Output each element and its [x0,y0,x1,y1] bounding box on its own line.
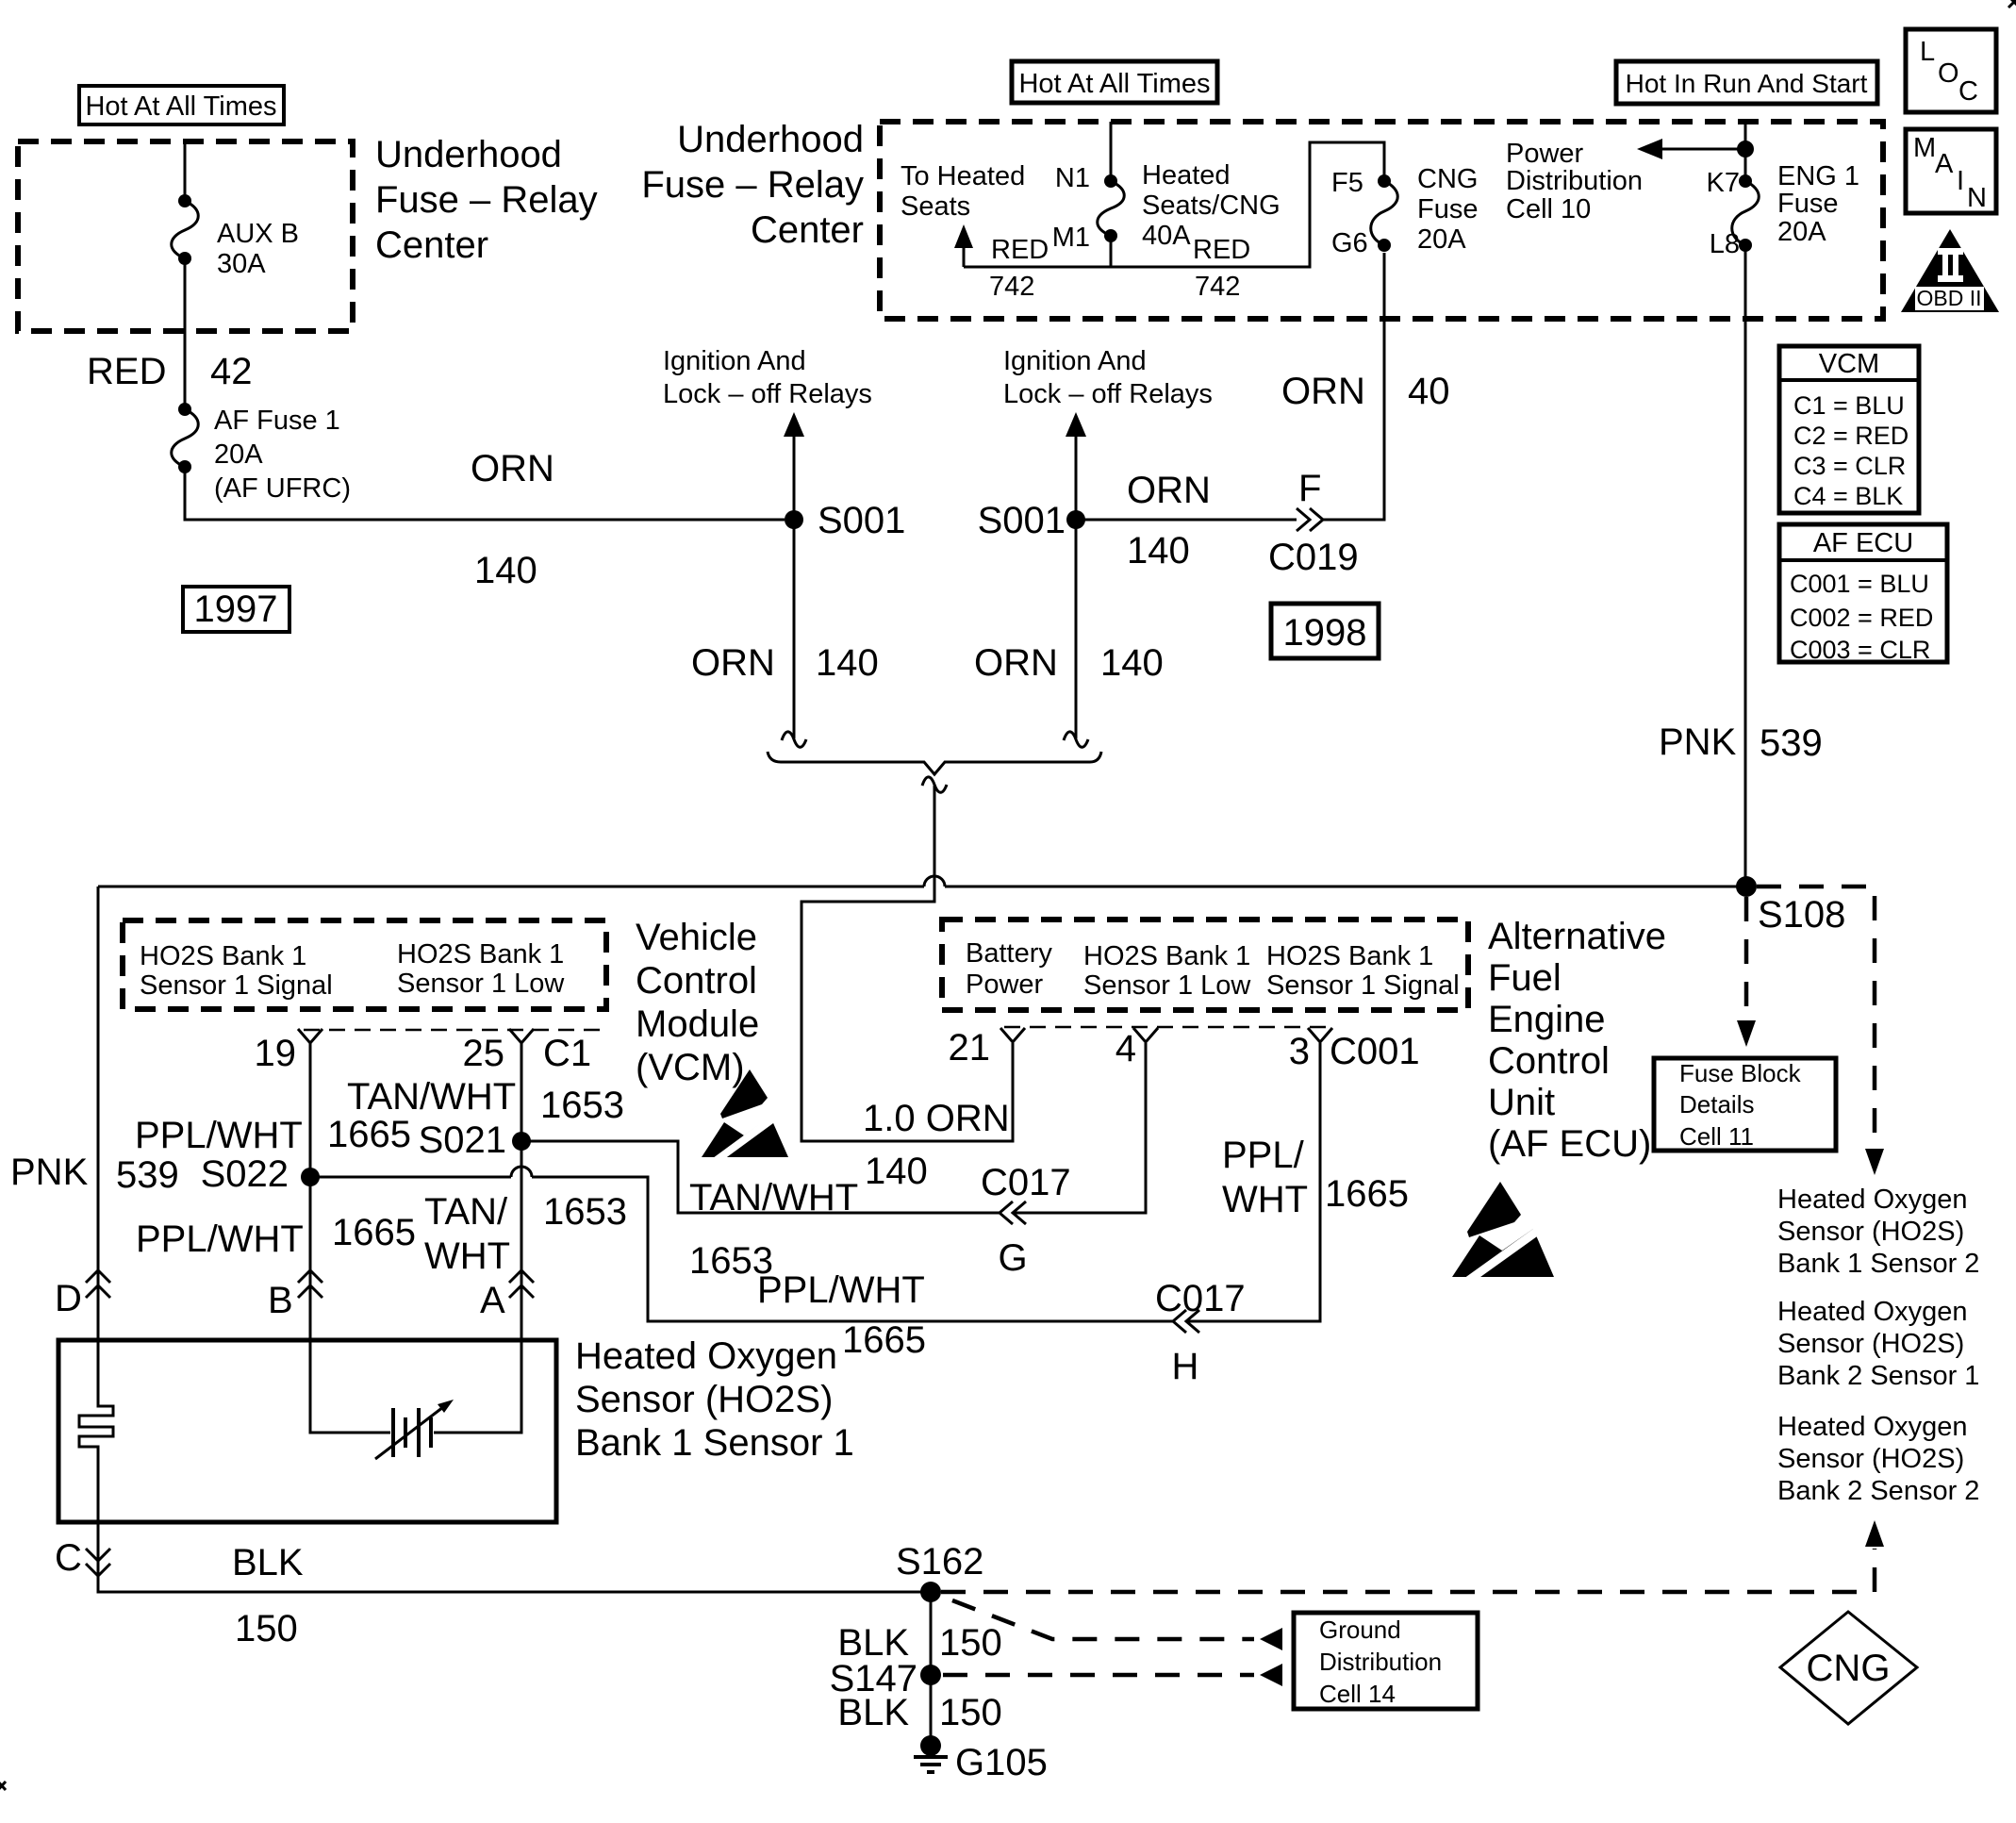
pin 19 fork [298,1029,322,1043]
svg-text:Fuse – Relay: Fuse – Relay [641,164,864,206]
svg-text:Sensor (HO2S): Sensor (HO2S) [1777,1217,1964,1247]
svg-text:Module: Module [636,1003,759,1045]
svg-text:N1: N1 [1055,163,1090,193]
svg-text:H: H [1172,1346,1199,1387]
svg-text:742: 742 [1195,272,1240,302]
pin 25 fork [509,1029,534,1043]
merge brace under the two ORN wires [768,752,1101,774]
svg-text:Bank 2 Sensor 1: Bank 2 Sensor 1 [1777,1361,1979,1391]
svg-text:742: 742 [989,272,1034,302]
svg-text:RED: RED [1193,235,1250,265]
label box "Hot At All Times" (left) [79,86,284,124]
svg-text:C017: C017 [981,1162,1071,1203]
svg-text:PNK: PNK [10,1152,89,1193]
label Ignition And Lock-off Relays (right) [1003,346,1213,409]
arrow up to ignition relays (right) [1066,412,1086,520]
svg-text:PPL/WHT: PPL/WHT [135,1115,303,1156]
VCM connector legend box [1779,346,1919,513]
svg-text:C002 = RED: C002 = RED [1790,604,1933,632]
connector C019 pin F chevrons [1268,468,1359,578]
svg-text:(AF ECU): (AF ECU) [1488,1123,1651,1165]
fuse CNG Fuse 20A (F5/G6) [1331,164,1478,258]
svg-text:Underhood: Underhood [677,119,864,160]
svg-text:K7: K7 [1707,168,1740,198]
svg-text:21: 21 [949,1027,991,1069]
svg-text:Bank 1 Sensor 2: Bank 1 Sensor 2 [1777,1249,1979,1279]
label Power Distribution Cell 10 [1506,139,1643,224]
label Ignition And Lock-off Relays (left) [663,346,872,409]
wire hop over brace branch [924,876,945,887]
sensor cell wires (B and A legs) [310,1340,390,1433]
corner registration mark (bottom left) [0,1781,6,1791]
svg-text:Seats/CNG: Seats/CNG [1142,191,1281,221]
svg-text:Alternative: Alternative [1488,916,1666,957]
svg-text:Control: Control [1488,1040,1610,1082]
svg-text:RED: RED [87,351,166,392]
svg-text:G: G [998,1237,1027,1279]
svg-text:ORN: ORN [691,642,775,684]
wire from box top to fuse AUX B [184,141,187,201]
svg-text:C001: C001 [1330,1031,1420,1072]
wire TAN/WHT 1653 from S021 to C017 G [521,1141,1000,1213]
svg-text:Sensor (HO2S): Sensor (HO2S) [1777,1329,1964,1359]
svg-text:A: A [480,1280,505,1321]
year box 1997 [183,587,289,632]
svg-text:Hot At All Times: Hot At All Times [85,91,276,122]
connector chevrons A (up) [480,1270,534,1321]
svg-text:To Heated: To Heated [901,161,1025,191]
splice S021 [419,1119,531,1161]
svg-text:RED: RED [991,235,1049,265]
svg-text:PPL/: PPL/ [1222,1135,1305,1176]
svg-text:1665: 1665 [1325,1173,1409,1215]
svg-text:Sensor 1 Signal: Sensor 1 Signal [140,970,333,1001]
wire-break squiggle (right) [1064,732,1088,747]
splice S108 [1736,876,1845,936]
svg-text:Hot At All Times: Hot At All Times [1018,69,1210,99]
svg-text:HO2S Bank 1: HO2S Bank 1 [1083,941,1250,971]
wire ORN 40 from C019 up to G6 [1323,253,1384,520]
svg-text:4: 4 [1115,1028,1136,1069]
svg-text:Sensor (HO2S): Sensor (HO2S) [575,1379,833,1420]
svg-text:Heated Oxygen: Heated Oxygen [1777,1412,1968,1442]
svg-text:C1 = BLU: C1 = BLU [1793,391,1905,420]
svg-text:HO2S Bank 1: HO2S Bank 1 [140,941,306,971]
svg-text:N: N [1967,183,1987,213]
svg-text:140: 140 [865,1151,928,1192]
svg-text:S108: S108 [1758,894,1845,936]
wire PNK 539 horizontal with hop [98,886,924,888]
svg-text:3: 3 [1289,1031,1310,1072]
svg-text:1997: 1997 [194,588,278,630]
svg-text:Details: Details [1679,1090,1754,1119]
heater element (on D-C wire) [79,1340,113,1522]
svg-text:Unit: Unit [1488,1082,1555,1123]
variable arrow across cell [375,1400,454,1459]
arrow up To Heated Seats [954,224,973,267]
svg-text:40A: 40A [1142,221,1191,251]
svg-text:I: I [1957,166,1964,196]
svg-text:150: 150 [939,1692,1002,1733]
label Heated Oxygen Sensor (HO2S) Bank 1 Sensor 1 [575,1335,854,1464]
svg-text:AUX B: AUX B [217,219,299,249]
connector C017 pin G chevrons [981,1162,1071,1279]
svg-text:CNG: CNG [1807,1648,1891,1689]
svg-text:Cell 10: Cell 10 [1506,194,1591,224]
dashed lead from S108 right and down to HO2S bank 1 sensor 2 [1757,887,1884,1175]
svg-text:B: B [268,1280,293,1321]
label Heated Oxygen Sensor (HO2S) Bank 2 Sensor 2 [1777,1412,1979,1506]
connector chevrons D (up) [55,1270,110,1319]
svg-text:Sensor 1 Low: Sensor 1 Low [1083,970,1251,1001]
wire from brace down to VCM branch [801,786,1013,1141]
svg-text:Fuse Block: Fuse Block [1679,1059,1802,1087]
svg-text:1653: 1653 [540,1085,624,1126]
wire continue to corner and down [532,1177,1173,1321]
svg-text:Heated Oxygen: Heated Oxygen [1777,1185,1968,1215]
wire hop over pin25 wire [511,1167,532,1177]
connector C1 line (thin dashed) [304,1029,608,1032]
svg-text:BLK: BLK [232,1542,304,1583]
svg-text:Control: Control [636,960,757,1002]
svg-text:AF Fuse 1: AF Fuse 1 [214,406,340,436]
wire from pin 25 down through S021 to A [521,1043,523,1340]
svg-text:G105: G105 [955,1742,1048,1783]
svg-text:M1: M1 [1052,223,1090,253]
svg-text:(VCM): (VCM) [636,1047,745,1088]
svg-text:Center: Center [375,224,488,266]
label To Heated Seats [901,161,1025,222]
wire ORN 140 down from S001 (1998) [1075,520,1078,738]
svg-text:S001: S001 [818,500,905,541]
ESD symbol (VCM) [702,1069,788,1163]
wire BLK 150 from S147 to G105 [930,1675,933,1746]
connector chevrons C (down) [55,1537,110,1579]
fuse AF Fuse 1 20A (AF UFRC) [172,403,351,504]
MAIN box [1906,129,1996,213]
svg-text:539: 539 [1760,722,1823,764]
label Vehicle Control Module (VCM) [636,917,759,1088]
svg-text:O: O [1938,58,1959,89]
wire ORN 140 to S001 [185,467,785,520]
label box "Hot In Run And Start" [1616,61,1877,104]
wire BLK 150 from S162 to S147 [930,1592,933,1675]
svg-text:C2 = RED: C2 = RED [1793,422,1909,450]
svg-text:WHT: WHT [1222,1179,1308,1220]
svg-text:L8: L8 [1710,229,1740,259]
splice S147 [830,1658,941,1699]
wire RED 742 (right half) to F5 [1111,142,1384,267]
svg-text:140: 140 [1127,530,1190,572]
svg-text:Distribution: Distribution [1319,1648,1442,1676]
svg-text:140: 140 [816,642,879,684]
svg-text:C019: C019 [1268,537,1359,578]
svg-text:Distribution: Distribution [1506,166,1643,196]
LOC box [1906,29,1996,112]
svg-text:140: 140 [474,550,537,591]
svg-text:Heated Oxygen: Heated Oxygen [1777,1297,1968,1327]
svg-text:Power: Power [1506,139,1584,169]
svg-text:HO2S Bank 1: HO2S Bank 1 [397,939,564,970]
fuse Heated Seats/CNG 40A (N1/M1) [1052,160,1281,253]
svg-text:Bank 2 Sensor 2: Bank 2 Sensor 2 [1777,1476,1979,1506]
svg-text:C001 = BLU: C001 = BLU [1790,570,1929,598]
svg-text:F5: F5 [1331,168,1363,198]
svg-text:20A: 20A [1777,217,1826,247]
svg-text:Center: Center [751,209,864,251]
svg-text:TAN/WHT: TAN/WHT [689,1177,858,1218]
Ground Distribution Cell 14 box [1294,1613,1478,1709]
connector C001 line (thin dashed) [1004,1026,1330,1029]
pin 21 fork [1000,1028,1025,1042]
Fuse Block Details Cell 11 box [1654,1058,1836,1151]
svg-text:AF ECU: AF ECU [1813,528,1913,558]
svg-text:Fuel: Fuel [1488,957,1562,999]
svg-text:Fuse – Relay: Fuse – Relay [375,179,598,221]
splice S022 [201,1153,320,1195]
svg-text:Heated Oxygen: Heated Oxygen [575,1335,837,1377]
svg-text:PPL/WHT: PPL/WHT [757,1269,925,1311]
wire-break squiggle (brace center) [922,777,947,792]
svg-text:1665: 1665 [842,1319,926,1361]
svg-text:1.0 ORN: 1.0 ORN [863,1098,1010,1139]
dashed lead from S147 to ground distribution [943,1664,1282,1686]
wire PNK 539 from L8 down to S108 [1744,245,1747,887]
Underhood Fuse-Relay Center dashed box (left, 1997) [18,141,353,331]
sensor cell plates [393,1408,431,1457]
svg-text:539: 539 [116,1154,179,1196]
svg-text:Ignition And: Ignition And [663,346,806,376]
label Heated Oxygen Sensor (HO2S) Bank 1 Sensor 2 [1777,1185,1979,1279]
svg-text:F: F [1298,468,1321,509]
ground G105 [914,1735,1048,1783]
svg-text:Sensor 1 Low: Sensor 1 Low [397,969,565,999]
svg-text:ORN: ORN [1281,371,1365,412]
svg-text:Lock – off Relays: Lock – off Relays [663,379,872,409]
pin 3 fork [1308,1028,1332,1042]
wire from pin 19 down through S022 to B [309,1043,312,1340]
svg-text:1665: 1665 [327,1114,411,1155]
ESD symbol (AF ECU) [1452,1182,1554,1283]
svg-text:G6: G6 [1331,228,1368,258]
wire ORN 140 down from S001 (1997) [793,520,796,738]
AF ECU connector legend box [1779,524,1947,664]
svg-text:C003 = CLR: C003 = CLR [1790,636,1930,664]
svg-text:1653: 1653 [543,1191,627,1233]
svg-text:42: 42 [210,351,253,392]
dashed lead from S162 to ground distribution (diagonal) [952,1600,1282,1650]
svg-text:19: 19 [255,1033,297,1074]
fuse ENG 1 Fuse 20A (K7/L8) [1707,161,1860,259]
svg-text:TAN/: TAN/ [424,1191,508,1233]
wire RED 742 (left half) [964,236,1111,267]
wire BLK 150 from sensor C to S162 [98,1522,931,1592]
wire into N1 [1110,122,1113,181]
OBD II triangle symbol [1901,229,1999,312]
svg-text:L: L [1920,37,1935,67]
label Underhood Fuse-Relay Center (left) [375,134,598,266]
splice S001 (1998) [978,500,1085,541]
wire TAN/WHT to AF pin 4 [1013,1043,1146,1213]
svg-text:Heated: Heated [1142,160,1231,191]
svg-text:C1: C1 [543,1033,591,1074]
HO2S Bank1 Sensor1 dashed box (VCM) [123,920,606,1009]
svg-text:BLK: BLK [837,1692,909,1733]
svg-text:TAN/WHT: TAN/WHT [347,1076,516,1118]
svg-text:ORN: ORN [1127,470,1211,511]
Heated Oxygen Sensor HO2S box [58,1340,556,1522]
fuse AUX B 30A [172,194,299,279]
svg-text:PPL/WHT: PPL/WHT [136,1218,304,1260]
svg-text:Ignition And: Ignition And [1003,346,1147,376]
corner registration mark (top right) [2008,0,2016,8]
svg-text:1998: 1998 [1283,612,1367,654]
wire RED 42 [184,258,187,409]
svg-text:ENG 1: ENG 1 [1777,161,1859,191]
Battery Power / HO2S dashed box (AF ECU) [942,920,1468,1010]
svg-text:S162: S162 [896,1541,983,1583]
wire PNK 539 left vertical down to sensor [97,887,100,1340]
arrow left to power distribution [1637,139,1754,159]
svg-text:CNG: CNG [1417,164,1478,194]
label Heated Oxygen Sensor (HO2S) Bank 2 Sensor 1 [1777,1297,1979,1391]
svg-text:A: A [1935,149,1954,179]
svg-text:C: C [55,1537,82,1579]
connector chevrons B (up) [268,1270,322,1321]
wire from box top to K7 [1744,122,1747,181]
svg-text:Lock – off Relays: Lock – off Relays [1003,379,1213,409]
svg-text:(AF UFRC): (AF UFRC) [214,473,351,504]
wire-break squiggle (left) [782,732,806,747]
svg-text:20A: 20A [214,439,263,470]
CNG diamond [1780,1612,1917,1724]
wire PPL/WHT 1665 from S022 to C017 H (hop over A wire) [310,1176,511,1179]
label PPL/ WHT 1665 (pin 3 wire) [1222,1135,1409,1220]
svg-text:S021: S021 [419,1119,506,1161]
wire ORN 140 right from S001 to C019 [1076,519,1297,522]
svg-text:HO2S Bank 1: HO2S Bank 1 [1266,941,1433,971]
svg-text:ORN: ORN [471,448,554,489]
svg-text:Underhood: Underhood [375,134,562,175]
splice S162 [896,1541,983,1602]
Underhood Fuse-Relay Center dashed box (middle) [880,122,1883,319]
svg-text:1665: 1665 [332,1212,416,1253]
connector C017 pin H chevrons [1155,1278,1246,1387]
svg-text:M: M [1913,133,1936,163]
svg-text:Seats: Seats [901,191,970,222]
svg-text:C017: C017 [1155,1278,1246,1319]
arrow up to ignition relays (left) [784,412,804,520]
svg-text:Cell 14: Cell 14 [1319,1680,1396,1708]
svg-text:Fuse: Fuse [1417,194,1478,224]
svg-text:150: 150 [939,1622,1002,1664]
dashed lead from S108 down to fuse block details [1737,897,1756,1047]
svg-text:Engine: Engine [1488,999,1606,1040]
svg-text:VCM: VCM [1819,349,1879,379]
svg-text:Power: Power [966,970,1044,1000]
svg-text:Ground: Ground [1319,1616,1401,1644]
label TAN/ WHT 1653 (below S021) [424,1191,627,1277]
svg-text:ORN: ORN [974,642,1058,684]
svg-text:WHT: WHT [424,1235,510,1277]
svg-text:30A: 30A [217,249,266,279]
svg-text:150: 150 [235,1608,298,1649]
svg-text:S001: S001 [978,500,1066,541]
wire PPL/WHT to AF pin 3 [1186,1043,1320,1321]
svg-text:Sensor (HO2S): Sensor (HO2S) [1777,1444,1964,1474]
svg-text:Hot In Run And Start: Hot In Run And Start [1626,69,1868,98]
year box 1998 [1271,604,1379,658]
svg-text:C4 = BLK: C4 = BLK [1793,482,1903,510]
pin 4 fork [1133,1028,1158,1042]
svg-text:140: 140 [1100,642,1164,684]
svg-text:C: C [1958,76,1978,107]
svg-text:S022: S022 [201,1153,289,1195]
svg-text:Battery: Battery [966,938,1052,969]
label box "Hot At All Times" (middle) [1012,61,1217,103]
svg-text:D: D [55,1278,82,1319]
label Underhood Fuse-Relay Center (middle) [641,119,864,251]
svg-text:Bank 1 Sensor 1: Bank 1 Sensor 1 [575,1422,854,1464]
splice S001 (1997) [785,500,905,541]
svg-text:C3 = CLR: C3 = CLR [1793,452,1906,480]
svg-text:Fuse: Fuse [1777,189,1838,219]
svg-text:40: 40 [1408,371,1450,412]
dashed lead from S162 to HO2S bank 2 sensor 2 (up arrow) [941,1520,1884,1592]
svg-text:Vehicle: Vehicle [636,917,757,958]
wire [945,886,1746,888]
svg-text:20A: 20A [1417,224,1466,255]
svg-text:OBD II: OBD II [1916,286,1981,310]
svg-text:25: 25 [463,1033,505,1074]
svg-text:PNK: PNK [1659,721,1737,763]
svg-text:Sensor 1 Signal: Sensor 1 Signal [1266,970,1460,1001]
svg-text:Cell 11: Cell 11 [1679,1122,1754,1151]
label Alternative Fuel Engine Control Unit (AF ECU) [1488,916,1666,1165]
